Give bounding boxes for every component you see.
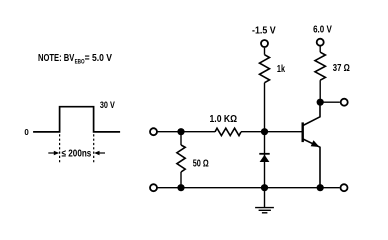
resistor 50 Ω — [177, 145, 185, 172]
wire input top rail — [158, 131, 216, 133]
wire 1k to central node — [264, 83, 266, 132]
svg-text:1.0 KΩ: 1.0 KΩ — [210, 114, 238, 125]
wire collector node to output terminal — [320, 101, 340, 103]
svg-text:-1.5 V: -1.5 V — [252, 26, 276, 37]
svg-text:6.0 V: 6.0 V — [313, 25, 332, 36]
diode CR1 (cathode bar) — [259, 153, 269, 155]
transistor Q1 (NPN) — [303, 103, 320, 188]
wire diode branch (central node to bottom rail) — [264, 132, 266, 188]
terminal output bottom — [341, 184, 348, 191]
arrow right (points left at right dashed line) — [94, 151, 105, 155]
terminal input bottom — [150, 184, 157, 191]
diode CR1 (anode triangle pointing up) — [260, 155, 270, 162]
svg-text:EBO: EBO — [75, 59, 85, 66]
wire bottom rail — [158, 187, 340, 189]
resistor 1.0 KΩ — [215, 128, 241, 135]
wire 50 Ω bottom — [180, 172, 182, 188]
terminal -1.5 V supply — [261, 40, 268, 47]
resistor 37 Ω — [315, 52, 325, 80]
svg-text:50 Ω: 50 Ω — [193, 159, 209, 170]
node input bottom — [177, 184, 184, 191]
wire -1.5 V to 1k — [264, 48, 266, 55]
wire 37 Ω to collector node — [319, 80, 321, 102]
svg-text:0: 0 — [24, 128, 29, 137]
wire 1.0 KΩ to central node — [241, 131, 265, 133]
svg-text:1k: 1k — [277, 64, 285, 75]
terminal 6.0 V supply — [317, 39, 324, 46]
wire base (central node to transistor base) — [265, 131, 302, 133]
ground — [255, 188, 274, 213]
svg-text:30 V: 30 V — [100, 100, 115, 110]
note text NOTE: BV_EBO = 5.0 V — [38, 53, 112, 66]
svg-text:NOTE: BV: NOTE: BV — [38, 53, 74, 64]
svg-text:≤ 200ns: ≤ 200ns — [62, 148, 92, 159]
terminal input top — [150, 128, 157, 135]
svg-text:= 5.0 V: = 5.0 V — [85, 53, 113, 64]
resistor 1k — [260, 55, 270, 83]
input pulse waveform — [33, 107, 120, 132]
wire 50 Ω top — [180, 132, 182, 145]
node central (base node) — [261, 128, 268, 135]
dashed line right edge — [93, 134, 95, 162]
terminal output top — [341, 99, 348, 106]
arrow left (points right at left dashed line) — [48, 151, 59, 155]
node collector — [317, 99, 324, 106]
svg-text:37 Ω: 37 Ω — [333, 63, 350, 74]
node input top — [177, 128, 184, 135]
dashed line left edge — [59, 134, 61, 162]
node diode bottom / ground junction — [261, 184, 268, 191]
wire 6.0 V to 37 Ω — [319, 46, 321, 52]
node emitter bottom — [317, 184, 324, 191]
